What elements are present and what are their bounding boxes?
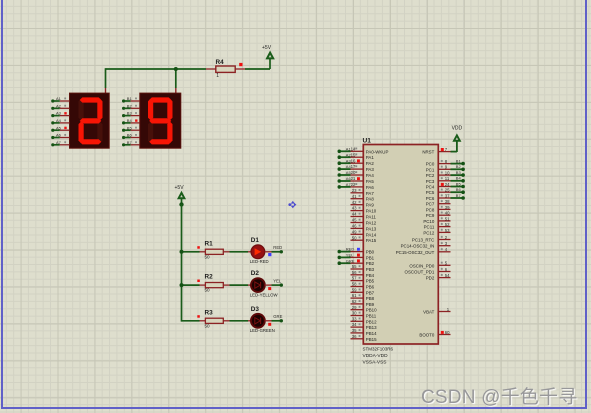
U1 pin PB12 (33) [351,316,378,324]
svg-text:B3: B3 [127,111,133,116]
svg-text:PB1: PB1 [366,255,375,260]
LED D1 (LED-RED) [248,237,269,264]
svg-text:PA0-WKUP: PA0-WKUP [366,149,389,154]
resistor R4 with value 1 [206,59,245,79]
U1 pin PB8 (61) [351,293,375,301]
power terminal +5V (top) [262,45,274,69]
wire: vertical LED supply rail [181,205,183,322]
svg-text:38: 38 [445,199,450,204]
svg-text:40: 40 [445,211,450,216]
svg-text:PC11: PC11 [424,225,435,230]
svg-text:36: 36 [352,334,357,339]
svg-text:37: 37 [445,193,450,198]
U1 pin PA8 (41) [351,194,375,202]
U1 pin PA1 (15) [338,152,375,160]
svg-text:D3: D3 [251,306,260,313]
wire + terminal GRE [265,314,283,322]
svg-text:25: 25 [445,188,450,193]
DS1 pin A3 [51,111,69,118]
U1 pin PB11 (30) [351,311,377,319]
svg-text:R1: R1 [205,240,214,247]
editor pan cursor icon [288,201,296,208]
svg-text:VDDA-VDD: VDDA-VDD [363,353,389,359]
DS2 pin B3 [122,111,140,118]
svg-text:35: 35 [352,328,357,333]
svg-text:PC5: PC5 [426,190,435,195]
svg-text:PB15: PB15 [366,337,377,342]
LED D3 (LED-GREEN) [248,306,275,333]
U1 pin PA6 (22) [338,182,375,190]
svg-text:D2: D2 [251,270,260,277]
U1 pin PA13 (46) [351,224,377,232]
svg-text:VBAT: VBAT [423,310,434,315]
svg-text:YEL: YEL [346,253,354,258]
U1 pin PB2 (28) [338,258,375,266]
svg-text:PB8: PB8 [366,296,375,301]
LED D2 (LED-YELLOW) [248,270,278,297]
svg-text:STM32F103R6: STM32F103R6 [363,347,394,352]
svg-text:PC0: PC0 [426,162,435,167]
svg-text:56: 56 [352,270,357,275]
U1 pin NRST (7) [422,147,450,155]
svg-text:29: 29 [352,305,357,310]
svg-text:PA13: PA13 [366,226,377,231]
U1 pin PC12 (53) [423,228,450,236]
svg-text:50: 50 [205,254,211,259]
svg-text:41: 41 [352,194,357,199]
DS2 pin B2 [122,103,140,110]
svg-text:PB6: PB6 [366,285,375,290]
U1 pin PA14 (49) [351,229,377,237]
DS2 pin B6 [122,133,140,139]
power terminal VDD at NRST [451,126,463,153]
svg-text:RED: RED [273,245,282,250]
svg-text:17: 17 [351,164,356,169]
svg-text:OSCOUT_PD1: OSCOUT_PD1 [405,270,435,275]
svg-text:20: 20 [351,170,356,175]
svg-text:PA1: PA1 [366,155,375,160]
svg-text:NRST: NRST [422,150,434,155]
U1 pin PC14-OSC32_IN (3) [401,241,451,249]
svg-text:B7: B7 [127,140,133,145]
U1 pin PB6 (58) [351,282,375,290]
svg-text:OSCIN_PD0: OSCIN_PD0 [409,263,434,268]
U1 pin PB14 (35) [351,328,378,336]
svg-text:34: 34 [352,322,357,327]
resistor R3 value 50 [197,309,229,328]
svg-text:PC3: PC3 [426,179,435,184]
svg-text:B1: B1 [456,158,462,163]
svg-text:VDD: VDD [452,126,463,132]
U1 pin PA10 (43) [351,206,377,214]
svg-text:PC12: PC12 [423,230,435,235]
svg-text:10: 10 [445,171,450,176]
U1 pin PB13 (34) [351,322,378,330]
svg-text:RED: RED [346,247,355,252]
svg-text:PA8: PA8 [366,197,375,202]
svg-text:PA12: PA12 [366,221,377,226]
svg-text:PB5: PB5 [366,279,375,284]
svg-text:43: 43 [352,206,357,211]
svg-text:53: 53 [445,228,450,233]
svg-text:PC6: PC6 [426,196,435,201]
svg-text:51: 51 [445,216,450,221]
U1 pin PB15 (36) [351,334,378,342]
svg-text:PC13_RTC: PC13_RTC [412,238,434,243]
svg-text:PC7: PC7 [426,202,435,207]
svg-text:PA6: PA6 [366,185,375,190]
U1 pin PA3 (17) [338,164,375,172]
svg-text:R4: R4 [216,59,225,66]
svg-text:B6: B6 [456,187,462,192]
svg-text:A3: A3 [56,111,62,116]
svg-text:PA15: PA15 [366,238,377,243]
svg-text:PC10: PC10 [423,219,435,224]
svg-text:PA2: PA2 [366,161,375,166]
U1 pin PA15 (50) [351,235,377,243]
svg-text:52: 52 [445,222,450,227]
svg-text:21: 21 [351,176,356,181]
wire: rail to R1 [182,251,200,253]
svg-text:15: 15 [351,152,356,157]
svg-text:A5: A5 [56,125,62,130]
svg-text:49: 49 [352,229,357,234]
svg-text:50: 50 [205,288,211,293]
svg-text:PA4: PA4 [366,173,375,178]
7-segment display DS1 (digit 2) [70,93,110,148]
svg-text:50: 50 [205,323,211,328]
svg-text:PC1: PC1 [426,167,435,172]
U1 pin PA11 (44) [351,212,377,220]
wire: horizontal net from displays anodes to R4 and +5V [106,68,271,70]
U1 pin PB0 (26) [338,247,375,255]
svg-text:PB9: PB9 [366,302,375,307]
svg-text:B4: B4 [127,118,133,123]
U1 pin PC3 (11) [426,176,465,184]
U1 pin PB3 (55) [351,264,375,272]
svg-text:B1: B1 [127,96,133,101]
U1 pin OSCOUT_PD1 (6) [405,267,451,275]
U1 pin PA5 (21) [338,176,375,184]
svg-text:46: 46 [352,224,357,229]
U1 pin PB4 (56) [351,270,375,278]
svg-text:58: 58 [352,282,357,287]
svg-text:PA10: PA10 [366,209,377,214]
U1 pin PB5 (57) [351,276,375,284]
svg-text:BOOT0: BOOT0 [419,333,434,338]
svg-text:57: 57 [352,276,357,281]
svg-text:1: 1 [216,73,219,79]
svg-text:A6: A6 [56,133,62,138]
svg-text:PB3: PB3 [366,267,375,272]
U1 pin PD2 (54) [426,273,451,281]
7-segment display DS2 (digit 9) [140,93,181,148]
U1 pin PC7 (38) [426,199,451,207]
U1 pin PA12 (45) [351,218,377,226]
U1 pin VBAT (1) [423,307,450,315]
U1 pin PC4 (24) [426,181,465,189]
wire: R2 to D2 [230,284,249,286]
svg-text:D1: D1 [251,237,260,244]
U1 pin OSCIN_PD0 (5) [409,261,450,269]
svg-text:A4: A4 [56,118,62,123]
svg-text:50: 50 [352,235,357,240]
U1 pin PC15-OSC32_OUT (4) [396,247,451,255]
svg-text:39: 39 [445,205,450,210]
svg-text:PC4: PC4 [426,185,435,190]
U1 pin PC0 (8) [426,158,465,166]
DS1 pin A6 [51,133,69,139]
U1 pin PA7 (23) [351,188,375,196]
junction at DS2 riser [174,67,178,71]
svg-text:PC2: PC2 [426,173,435,178]
svg-text:PB10: PB10 [366,308,377,313]
U1 pin PC6 (37) [426,193,465,201]
svg-text:A1: A1 [56,96,62,101]
U1 pin PA0-WKUP (14) [338,146,389,154]
svg-text:PB4: PB4 [366,273,375,278]
wire: rail to R3 [182,320,200,322]
DS2 pin B1 [122,96,140,103]
svg-text:B2: B2 [127,103,133,108]
svg-text:B5: B5 [456,181,462,186]
svg-text:22: 22 [351,182,356,187]
wire: display DS1 anode riser [105,68,107,94]
svg-text:24: 24 [445,182,450,187]
U1 pin PB9 (62) [351,299,375,307]
svg-text:45: 45 [352,218,357,223]
U1 pin PC2 (10) [426,170,465,178]
svg-text:U1: U1 [363,138,372,145]
svg-text:42: 42 [352,200,357,205]
svg-text:B5: B5 [127,125,133,130]
U1 pin PB10 (29) [351,305,378,313]
svg-text:PC8: PC8 [426,207,435,212]
marker square (blue) at D1 [268,253,271,256]
svg-text:B7: B7 [456,193,462,198]
svg-text:PB7: PB7 [366,290,375,295]
junction on rail row R1 [180,250,184,254]
svg-text:PC9: PC9 [426,213,435,218]
U1 pin PC9 (40) [426,211,451,219]
svg-text:LED-YELLOW: LED-YELLOW [250,292,279,297]
DS1 pin A2 [51,103,69,110]
U1 pin PC10 (51) [423,216,450,224]
svg-text:R3: R3 [205,309,214,316]
U1 pin PA2 (16) [338,158,375,166]
U1 pin PA9 (42) [351,200,375,208]
svg-text:PA11: PA11 [366,215,377,220]
svg-text:+5V: +5V [262,45,272,51]
DS1 pin A1 [51,96,69,103]
svg-text:PC15-OSC32_OUT: PC15-OSC32_OUT [396,250,435,255]
microcontroller U1 STM32F103R6 body [363,138,439,366]
svg-text:33: 33 [352,316,357,321]
svg-text:YEL: YEL [273,278,282,283]
svg-text:55: 55 [352,264,357,269]
svg-text:PA9: PA9 [366,203,375,208]
svg-text:61: 61 [352,293,357,298]
svg-text:PB2: PB2 [366,261,375,266]
svg-text:B4: B4 [456,176,462,181]
svg-text:GRE: GRE [346,258,355,263]
svg-text:A2: A2 [56,103,62,108]
svg-text:GRE: GRE [273,314,282,319]
U1 pin PC5 (25) [426,187,465,195]
resistor R1 value 50 [197,240,229,259]
svg-text:PB14: PB14 [366,331,377,336]
svg-text:VSSA-VSS: VSSA-VSS [363,359,387,365]
svg-text:62: 62 [352,299,357,304]
svg-text:PB13: PB13 [366,325,377,330]
DS2 pin B5 [122,125,140,131]
resistor R2 value 50 [197,274,229,293]
svg-text:PD2: PD2 [426,276,435,281]
U1 pin PC8 (39) [426,205,451,213]
DS2 pin B7 [122,140,140,147]
DS1 pin A7 [51,140,69,147]
svg-text:PB0: PB0 [366,250,375,255]
svg-text:A7: A7 [56,140,62,145]
svg-text:+5V: +5V [175,185,185,191]
U1 pin PB1 (27) [338,253,375,261]
svg-text:16: 16 [351,158,356,163]
svg-text:R2: R2 [205,274,214,281]
marker square (red) at D3 [268,323,271,326]
wire: display DS2 anode riser [175,69,177,94]
U1 pin PA4 (20) [338,170,375,178]
wire + terminal RED [265,245,283,254]
wire: R1 to D1 [230,251,249,253]
junction on rail row R2 [180,283,184,287]
svg-text:44: 44 [352,212,357,217]
svg-text:PB11: PB11 [366,314,377,319]
svg-text:B6: B6 [127,133,133,138]
wire: R3 to D3 [230,320,249,322]
junction below power arrow [179,202,183,206]
svg-text:PA14: PA14 [366,232,377,237]
U1 pin PC1 (9) [426,164,465,172]
svg-text:LED-GREEN: LED-GREEN [250,328,275,333]
U1 pin PB7 (59) [351,287,375,295]
power terminal +5V (LED rail) [175,185,186,204]
U1 pin PC13_RTC (2) [412,235,451,243]
svg-text:30: 30 [352,311,357,316]
svg-text:PA3: PA3 [366,167,375,172]
svg-text:B3: B3 [456,170,462,175]
svg-text:PC14-OSC32_IN: PC14-OSC32_IN [401,244,435,249]
wire + terminal YEL [265,278,283,287]
svg-text:PA7: PA7 [366,191,375,196]
svg-text:PB12: PB12 [366,319,377,324]
svg-text:23: 23 [352,188,357,193]
U1 pin BOOT0 (60) [419,330,450,338]
DS1 pin A5 [51,125,69,131]
DS1 pin A4 [51,118,69,125]
marker square (red) at D2 [268,287,271,290]
wire: rail to R2 [182,284,200,286]
svg-text:60: 60 [445,330,450,335]
U1 pin PC11 (52) [424,222,451,230]
svg-text:LED-RED: LED-RED [250,259,269,264]
svg-text:11: 11 [445,176,450,181]
svg-text:14: 14 [351,146,356,151]
svg-text:54: 54 [445,273,450,278]
svg-text:B2: B2 [456,164,462,169]
svg-text:59: 59 [352,287,357,292]
DS2 pin B4 [122,118,140,125]
svg-text:PA5: PA5 [366,179,375,184]
